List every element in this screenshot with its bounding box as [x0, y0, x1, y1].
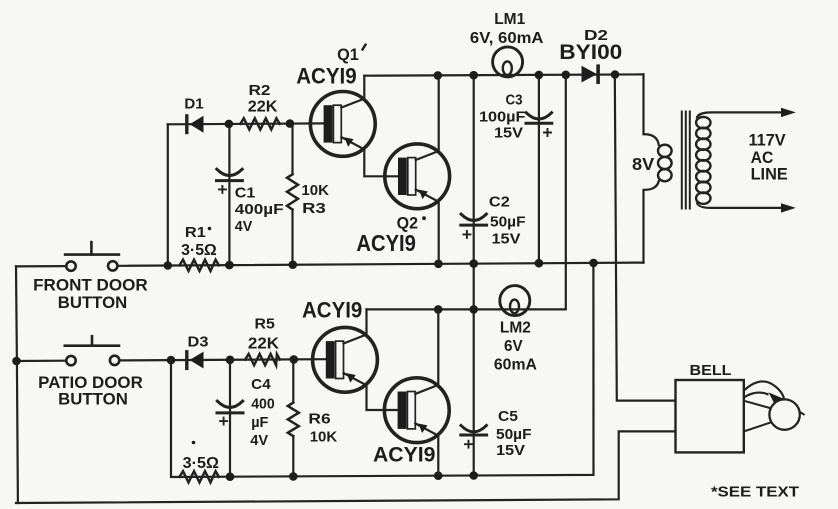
svg-text:3·5Ω: 3·5Ω	[181, 242, 217, 259]
transistor Q4	[384, 309, 449, 475]
svg-text:ACYI9: ACYI9	[356, 230, 416, 256]
label LM1 6V 60mA	[470, 11, 544, 47]
svg-text:PATIO DOOR: PATIO DOOR	[38, 374, 143, 392]
node dots top rail	[434, 70, 620, 80]
capacitor C3	[479, 92, 552, 141]
diode D3	[187, 333, 209, 368]
wire left edge vertical	[16, 266, 18, 503]
svg-text:6V, 60mA: 6V, 60mA	[470, 30, 544, 47]
switch S1 front door button	[65, 242, 119, 271]
svg-text:µF: µF	[251, 414, 268, 431]
diode D1	[184, 96, 203, 133]
svg-text:R2: R2	[249, 82, 271, 99]
svg-text:8V: 8V	[632, 154, 655, 174]
wire C2 C5 branch vertical	[473, 75, 475, 475]
wire patio base wire	[16, 359, 326, 361]
svg-text:ACYI9: ACYI9	[373, 444, 435, 467]
svg-text:100µF: 100µF	[479, 109, 526, 125]
lamp LM2	[500, 286, 530, 316]
wire Q1 base input	[168, 122, 324, 125]
svg-text:3·5Ω: 3·5Ω	[183, 455, 219, 472]
svg-text:LINE: LINE	[751, 166, 788, 184]
svg-text:BYI00: BYI00	[559, 41, 622, 64]
label PATIO DOOR BUTTON	[38, 374, 143, 409]
transistor Q1	[310, 76, 398, 177]
svg-text:LM1: LM1	[494, 11, 525, 28]
svg-text:C1: C1	[235, 185, 256, 202]
node dots mid rail	[164, 259, 598, 270]
wire top supply rail	[364, 74, 643, 75]
label Q2	[397, 214, 426, 233]
svg-text:10K: 10K	[310, 428, 338, 445]
label FRONT DOOR BUTTON	[33, 277, 148, 313]
svg-text:R6: R6	[308, 410, 330, 427]
resistor R2	[240, 82, 279, 129]
svg-text:10K: 10K	[301, 182, 329, 199]
transistor Q2	[385, 75, 450, 263]
node dots patio wire	[12, 355, 298, 365]
svg-text:BUTTON: BUTTON	[58, 391, 128, 409]
resistor R1 3.5 ohm	[180, 224, 219, 271]
svg-text:22K: 22K	[248, 335, 280, 352]
svg-text:Q1: Q1	[337, 45, 359, 64]
wire R6 branch vertical	[292, 359, 294, 476]
node dots Q1 base wire	[225, 119, 295, 128]
svg-text:117V: 117V	[749, 132, 786, 150]
wire C4 branch vertical	[229, 360, 231, 477]
svg-text:R1: R1	[185, 224, 206, 241]
wire bell feed from rectifier	[615, 75, 676, 401]
svg-text:D1: D1	[184, 96, 203, 113]
svg-text:50µF: 50µF	[490, 214, 526, 230]
resistor R6	[288, 403, 338, 446]
svg-text:R5: R5	[255, 316, 275, 333]
label LM2 6V 60mA	[494, 319, 537, 373]
lamp LM1	[493, 47, 523, 77]
resistor R3	[287, 174, 329, 217]
svg-text:R3: R3	[302, 200, 326, 217]
resistor R5	[245, 316, 280, 366]
svg-text:50µF: 50µF	[496, 427, 532, 443]
resistor 3.5 ohm bottom	[180, 441, 220, 483]
svg-text:C3: C3	[506, 92, 523, 108]
wire C1 branch vertical	[228, 124, 230, 265]
svg-text:15V: 15V	[496, 443, 525, 459]
svg-text:FRONT DOOR: FRONT DOOR	[33, 277, 148, 295]
label 117V AC LINE	[749, 132, 788, 184]
svg-text:ACYI9: ACYI9	[296, 64, 357, 89]
svg-text:4V: 4V	[235, 218, 253, 235]
svg-text:C4: C4	[251, 376, 271, 393]
wire C3 branch vertical	[538, 75, 540, 263]
svg-text:400µF: 400µF	[235, 201, 284, 218]
wire bell return and bottom rail	[16, 431, 676, 503]
svg-text:BELL: BELL	[690, 363, 732, 379]
svg-text:15V: 15V	[492, 231, 521, 247]
transformer T1	[644, 74, 796, 262]
wire LM2 loop wire	[367, 75, 566, 310]
node dots LM2 wire	[434, 305, 478, 314]
diode D2	[582, 66, 599, 83]
transistor Q3	[313, 309, 398, 410]
capacitor C2	[461, 195, 526, 248]
capacitor C5	[461, 409, 532, 459]
wire mid emitter rail	[16, 263, 644, 267]
svg-text:C5: C5	[498, 409, 518, 425]
label Q1	[337, 45, 365, 64]
svg-text:22K: 22K	[248, 98, 279, 115]
svg-text:LM2: LM2	[500, 319, 531, 336]
svg-text:400: 400	[251, 395, 275, 412]
node dots bottom rail	[226, 471, 478, 481]
svg-text:*SEE TEXT: *SEE TEXT	[711, 484, 799, 501]
svg-text:C2: C2	[489, 195, 510, 211]
svg-text:ACYI9: ACYI9	[302, 298, 362, 323]
bell	[676, 380, 804, 452]
capacitor C1	[217, 169, 284, 235]
svg-text:BUTTON: BUTTON	[58, 294, 128, 312]
capacitor C4	[217, 376, 275, 449]
svg-text:4V: 4V	[250, 432, 268, 449]
wire bottom section rail	[171, 263, 594, 477]
svg-text:6V: 6V	[504, 338, 523, 355]
switch S2 patio door button	[65, 336, 120, 365]
wire R3 branch vertical	[291, 124, 293, 265]
svg-text:15V: 15V	[494, 125, 523, 141]
wire D1 branch vertical	[167, 124, 169, 265]
svg-text:AC: AC	[751, 149, 774, 167]
svg-text:D3: D3	[188, 333, 209, 350]
svg-text:60mA: 60mA	[494, 356, 537, 373]
